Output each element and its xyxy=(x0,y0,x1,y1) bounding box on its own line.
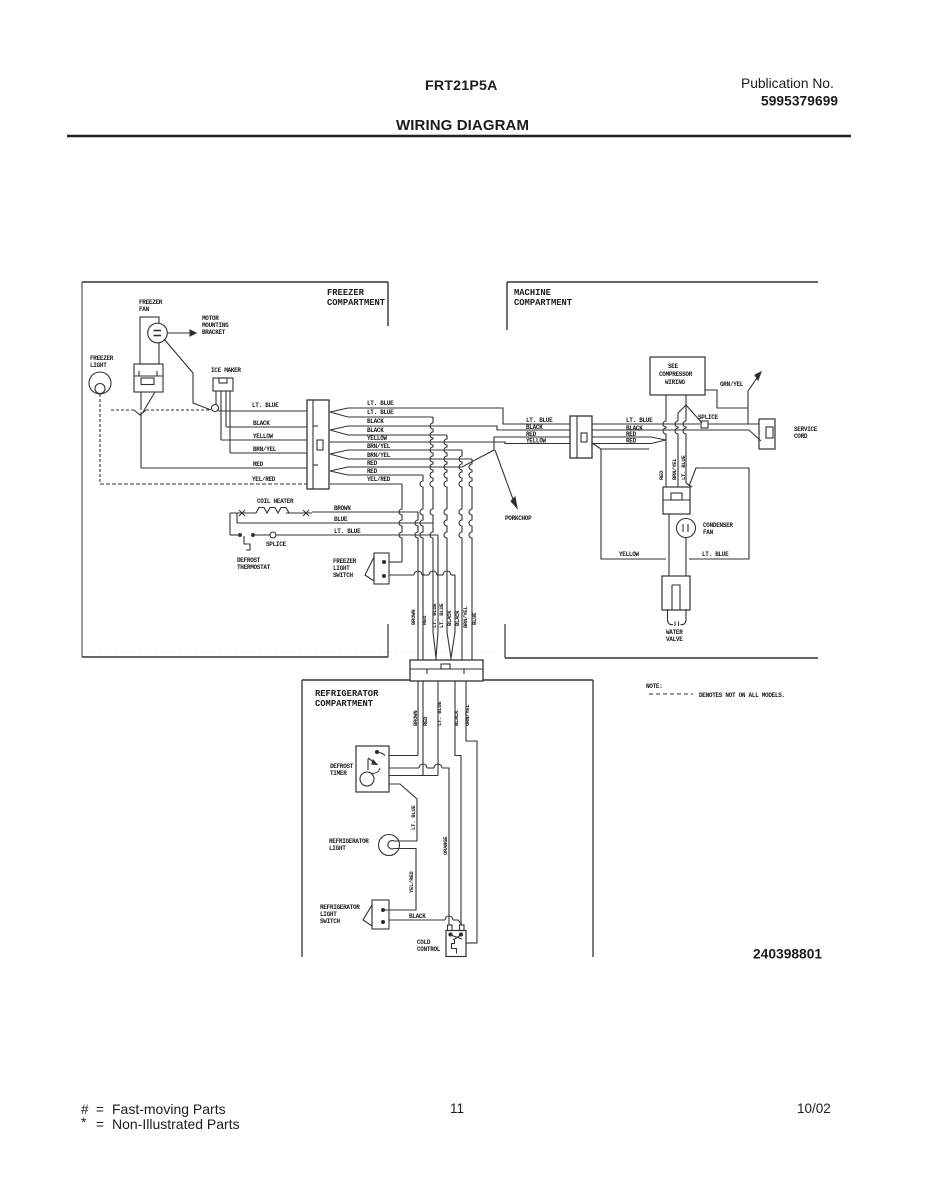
refrigerator compartment right border xyxy=(592,680,594,957)
water valve bell xyxy=(668,609,674,625)
vertical wire red fridge xyxy=(422,681,424,776)
svg-text:FAN: FAN xyxy=(703,529,714,536)
vertical wire orn/yel fridge xyxy=(466,681,477,943)
cold control box xyxy=(446,931,466,957)
machine compartment top border xyxy=(507,281,818,283)
vertical wire lt.blue 1 xyxy=(430,417,433,632)
compressor wiring box xyxy=(650,357,705,395)
svg-text:10/02: 10/02 xyxy=(797,1101,831,1116)
yel/red drop with hops xyxy=(399,484,402,562)
porkchop arrow xyxy=(495,450,514,502)
svg-text:LT. BLUE: LT. BLUE xyxy=(431,603,438,628)
wire row red freezer xyxy=(141,467,307,469)
svg-text:FRT21P5A: FRT21P5A xyxy=(425,78,498,94)
wire dashed v-notch to ice maker xyxy=(146,409,210,411)
service cord xyxy=(759,419,775,449)
svg-text:BLACK: BLACK xyxy=(253,420,270,427)
relay lead to water valve xyxy=(668,514,670,576)
coil heater element xyxy=(230,512,256,514)
svg-text:SWITCH: SWITCH xyxy=(320,918,341,925)
svg-text:BRN/YEL: BRN/YEL xyxy=(367,452,391,459)
svg-text:BLACK: BLACK xyxy=(409,913,426,920)
svg-text:SPLICE: SPLICE xyxy=(698,414,719,421)
svg-text:THERMOSTAT: THERMOSTAT xyxy=(237,564,271,571)
wire row5 yellow right xyxy=(330,442,570,444)
vertical wire brown fridge xyxy=(417,681,419,756)
crimp triangle rows 3-4 xyxy=(330,426,348,435)
compartment outlines xyxy=(82,282,818,957)
svg-text:BROWN: BROWN xyxy=(334,505,351,512)
wire red machine row xyxy=(592,436,651,438)
svg-text:SEE: SEE xyxy=(668,363,679,370)
svg-text:WIRING DIAGRAM: WIRING DIAGRAM xyxy=(396,117,529,134)
svg-text:*: * xyxy=(81,1115,87,1130)
svg-text:LT. BLUE: LT. BLUE xyxy=(438,603,445,628)
wire row black freezer xyxy=(226,426,307,428)
svg-text:LIGHT: LIGHT xyxy=(329,845,346,852)
svg-text:YELLOW: YELLOW xyxy=(526,438,547,445)
svg-text:=: = xyxy=(96,1102,104,1117)
freezer harness connector xyxy=(307,400,329,489)
wire red2 machine row xyxy=(592,443,651,445)
svg-text:LT. BLUE: LT. BLUE xyxy=(367,400,394,407)
freezer fan frame xyxy=(140,317,159,364)
wire row yel/red freezer xyxy=(100,483,307,485)
svg-text:YELLOW: YELLOW xyxy=(253,433,274,440)
vertical brn/yel to relay xyxy=(675,413,678,487)
wire freezer light down yel/red xyxy=(99,394,101,484)
svg-text:PORKCHOP: PORKCHOP xyxy=(505,515,532,522)
svg-text:Non-Illustrated Parts: Non-Illustrated Parts xyxy=(112,1116,240,1132)
svg-text:MOTOR: MOTOR xyxy=(202,315,219,322)
svg-text:ICE MAKER: ICE MAKER xyxy=(211,367,241,374)
svg-text:YEL/RED: YEL/RED xyxy=(252,476,276,483)
freezer light switch xyxy=(374,553,389,584)
svg-text:BRN/YEL: BRN/YEL xyxy=(253,446,277,453)
svg-text:240398801: 240398801 xyxy=(753,947,822,962)
svg-text:LT. BLUE: LT. BLUE xyxy=(680,455,687,480)
vertical lt.blue to relay xyxy=(683,405,686,483)
svg-text:CONTROL: CONTROL xyxy=(417,946,441,953)
freezer compartment left border xyxy=(81,282,83,657)
svg-text:RED: RED xyxy=(422,716,429,726)
svg-text:BRN/YEL: BRN/YEL xyxy=(367,443,391,450)
svg-text:=: = xyxy=(96,1117,104,1132)
svg-text:BLACK: BLACK xyxy=(367,418,384,425)
boundary gap right vertical xyxy=(504,624,506,658)
svg-text:DEFROST: DEFROST xyxy=(237,557,261,564)
vertical wire brown xyxy=(415,512,418,660)
wire row10 yel/red right xyxy=(330,483,402,485)
svg-text:BLACK: BLACK xyxy=(446,610,453,626)
vertical wire brn/yel xyxy=(459,450,462,660)
svg-text:GRN/YEL: GRN/YEL xyxy=(720,381,744,388)
wire row2 lt.blue right xyxy=(348,416,433,418)
compressor relay box xyxy=(663,487,690,514)
wire switch bottom to bundle xyxy=(389,574,414,576)
vertical wire red xyxy=(420,475,423,660)
svg-text:BLACK: BLACK xyxy=(453,710,460,726)
wire lt.blue to service cord xyxy=(708,423,759,425)
wire timer diagonal to light xyxy=(389,784,417,841)
svg-text:BLUE: BLUE xyxy=(471,612,478,625)
refrigerator light switch xyxy=(372,900,389,929)
vertical wire lt.blue 2 xyxy=(436,535,438,658)
mid harness connector xyxy=(410,660,483,681)
svg-text:MOUNTING: MOUNTING xyxy=(202,322,229,329)
wire black machine row xyxy=(592,430,761,441)
wire fan to ice maker diagonal xyxy=(164,339,211,410)
svg-text:BROWN: BROWN xyxy=(410,610,417,625)
defrost timer switch xyxy=(375,750,378,753)
splice square xyxy=(701,421,708,428)
svg-text:LT. BLUE: LT. BLUE xyxy=(367,409,394,416)
svg-text:COLD: COLD xyxy=(417,939,431,946)
compressor box leads xyxy=(685,395,687,405)
defrost timer motor xyxy=(360,772,374,786)
note dashed sample xyxy=(649,693,693,695)
svg-text:ORANGE: ORANGE xyxy=(442,836,449,855)
machine harness connector xyxy=(570,416,592,458)
red merge to relay drop xyxy=(651,437,666,444)
svg-text:YELLOW: YELLOW xyxy=(619,551,640,558)
wire row brn/yel freezer xyxy=(230,452,307,454)
svg-text:BRN/YEL: BRN/YEL xyxy=(462,606,469,628)
cold control switch xyxy=(451,935,463,939)
evaporator fan motor box xyxy=(134,364,163,392)
wire row yellow freezer xyxy=(221,439,307,441)
vertical wire blue xyxy=(469,459,472,660)
wire row3 black right xyxy=(348,426,570,430)
svg-text:DEFROST: DEFROST xyxy=(330,763,354,770)
svg-text:REFRIGERATOR: REFRIGERATOR xyxy=(320,904,360,911)
svg-text:SWITCH: SWITCH xyxy=(333,572,354,579)
note block xyxy=(646,683,785,699)
svg-text:Fast-moving Parts: Fast-moving Parts xyxy=(112,1101,226,1117)
wire black to cold control xyxy=(389,919,445,921)
ice maker wire curl xyxy=(212,405,219,412)
svg-text:LT. BLUE: LT. BLUE xyxy=(526,417,553,424)
wire row lt. blue lower xyxy=(276,534,438,536)
svg-text:VALVE: VALVE xyxy=(666,636,683,643)
crimp triangle rows 6-7 xyxy=(330,450,348,459)
wire timer to brown xyxy=(389,755,418,757)
y-split to splice xyxy=(686,405,702,423)
svg-text:COIL HEATER: COIL HEATER xyxy=(257,498,294,505)
svg-text:RED: RED xyxy=(658,470,665,480)
water valve xyxy=(662,576,690,610)
refrigerator compartment top border left segment xyxy=(302,679,410,681)
wire row4 black right xyxy=(348,434,447,436)
svg-text:RED: RED xyxy=(367,460,378,467)
freezer fan motor xyxy=(148,323,168,343)
wire red lead from fan xyxy=(140,412,142,468)
svg-text:REFRIGERATOR: REFRIGERATOR xyxy=(329,838,369,845)
svg-text:COMPARTMENT: COMPARTMENT xyxy=(514,298,573,308)
svg-text:RED: RED xyxy=(421,615,428,625)
svg-text:LT. BLUE: LT. BLUE xyxy=(410,805,417,830)
condenser fan motor xyxy=(677,519,696,538)
boundary gap left vertical xyxy=(387,624,389,657)
svg-text:5995379699: 5995379699 xyxy=(761,94,838,109)
wire timer orange with hops xyxy=(389,767,419,769)
svg-text:FAN: FAN xyxy=(139,306,150,313)
vertical wire lt.blue fridge xyxy=(437,681,439,776)
crimp triangle rows 1-2 xyxy=(330,408,348,417)
boundary dotted shadow xyxy=(90,651,500,653)
fan lead to water valve xyxy=(685,538,687,577)
svg-text:TIMER: TIMER xyxy=(330,770,347,777)
svg-text:BLACK: BLACK xyxy=(367,427,384,434)
ground arrow xyxy=(747,391,749,424)
cold control pins xyxy=(448,925,453,931)
motor mounting bracket arrow xyxy=(168,332,191,334)
wire switch top to yel/red drop xyxy=(389,561,402,563)
svg-text:LT. BLUE: LT. BLUE xyxy=(252,402,279,409)
svg-text:YELLOW: YELLOW xyxy=(367,435,388,442)
svg-text:RED: RED xyxy=(367,468,378,475)
svg-text:REFRIGERATOR: REFRIGERATOR xyxy=(315,689,379,699)
svg-text:BROWN: BROWN xyxy=(412,711,419,726)
svg-text:YEL/RED: YEL/RED xyxy=(408,871,415,893)
header xyxy=(67,76,851,136)
fan box lead left xyxy=(140,392,142,410)
wire row7 brn/yel right xyxy=(348,458,472,460)
wire row8 red right xyxy=(348,437,570,467)
footer xyxy=(81,1101,831,1132)
svg-text:CONDENSER: CONDENSER xyxy=(703,522,733,529)
defrost timer box xyxy=(356,746,389,792)
svg-text:11: 11 xyxy=(450,1101,464,1116)
strain relief v-notch xyxy=(134,410,146,415)
header rule xyxy=(67,135,851,138)
svg-text:COMPARTMENT: COMPARTMENT xyxy=(315,699,374,709)
defrost thermostat xyxy=(230,534,240,536)
svg-text:BRACKET: BRACKET xyxy=(202,329,226,336)
svg-text:LT. BLUE: LT. BLUE xyxy=(702,551,729,558)
wire row6 brn/yel right xyxy=(348,449,462,451)
svg-text:FREEZER: FREEZER xyxy=(90,355,114,362)
svg-text:SERVICE: SERVICE xyxy=(794,426,818,433)
svg-text:RED: RED xyxy=(253,461,264,468)
svg-text:COMPARTMENT: COMPARTMENT xyxy=(327,298,386,308)
cold control right stub xyxy=(466,942,477,944)
wire row blue xyxy=(236,513,238,523)
svg-text:Publication No.: Publication No. xyxy=(741,76,834,91)
freezer/machine bottom boundary left segment xyxy=(82,656,388,658)
svg-text:CORD: CORD xyxy=(794,433,808,440)
wire timer to red and lt.blue xyxy=(389,775,438,777)
svg-text:LT. BLUE: LT. BLUE xyxy=(436,701,443,726)
wire row1 lt.blue right xyxy=(348,408,570,424)
svg-text:MACHINE: MACHINE xyxy=(514,288,551,298)
svg-text:ORN/YEL: ORN/YEL xyxy=(464,704,471,726)
svg-text:BLUE: BLUE xyxy=(334,516,348,523)
splice on lt.blue xyxy=(253,534,270,536)
freezer compartment top border xyxy=(82,281,388,283)
wire lt.blue machine row xyxy=(592,423,700,425)
coil heater loop left xyxy=(229,513,231,535)
machine compartment corner bracket xyxy=(506,282,508,330)
svg-text:DENOTES NOT ON ALL MODELS.: DENOTES NOT ON ALL MODELS. xyxy=(699,692,785,699)
svg-text:BLACK: BLACK xyxy=(454,610,461,626)
vertical wire black 1 xyxy=(444,435,447,632)
wire row brown xyxy=(312,511,418,513)
refrigerator compartment top border right segment xyxy=(483,679,593,681)
svg-text:LT. BLUE: LT. BLUE xyxy=(334,528,361,535)
wire row lt. blue freezer xyxy=(218,410,307,412)
svg-text:WIRING: WIRING xyxy=(665,379,686,386)
ice maker pins xyxy=(215,391,217,405)
svg-text:LT. BLUE: LT. BLUE xyxy=(626,417,653,424)
refrigerator light bulb xyxy=(379,835,400,856)
vertical wire black fridge xyxy=(455,681,461,925)
wire row9 red right xyxy=(348,474,423,476)
wire freezer light dashed to v-notch xyxy=(111,409,134,411)
refrigerator compartment left border xyxy=(301,680,303,957)
machine inner box xyxy=(592,443,666,559)
svg-text:SPLICE: SPLICE xyxy=(266,541,287,548)
svg-text:WATER: WATER xyxy=(666,629,683,636)
freezer compartment corner bracket xyxy=(387,282,389,326)
svg-text:BRN/YEL: BRN/YEL xyxy=(671,458,678,480)
svg-text:FREEZER: FREEZER xyxy=(327,288,365,298)
freezer/machine bottom boundary right segment xyxy=(505,657,818,659)
svg-text:LIGHT: LIGHT xyxy=(320,911,337,918)
ice maker body xyxy=(213,378,233,391)
svg-text:FREEZER: FREEZER xyxy=(139,299,163,306)
wire light to switch yel/red xyxy=(384,849,416,911)
svg-text:BLACK: BLACK xyxy=(526,424,543,431)
crimp triangle rows 8-9 xyxy=(330,467,348,475)
svg-text:LIGHT: LIGHT xyxy=(90,362,107,369)
freezer light bulb xyxy=(89,372,111,394)
svg-text:COMPRESSOR: COMPRESSOR xyxy=(659,371,693,378)
fan box lead diagonal xyxy=(143,392,155,412)
vertical wire black 2 xyxy=(451,575,455,658)
svg-text:FREEZER: FREEZER xyxy=(333,558,357,565)
svg-text:YEL/RED: YEL/RED xyxy=(367,476,391,483)
svg-text:LIGHT: LIGHT xyxy=(333,565,350,572)
grn/yel box jog xyxy=(705,390,748,408)
svg-text:RED: RED xyxy=(626,438,637,445)
svg-text:NOTE:: NOTE: xyxy=(646,683,663,690)
